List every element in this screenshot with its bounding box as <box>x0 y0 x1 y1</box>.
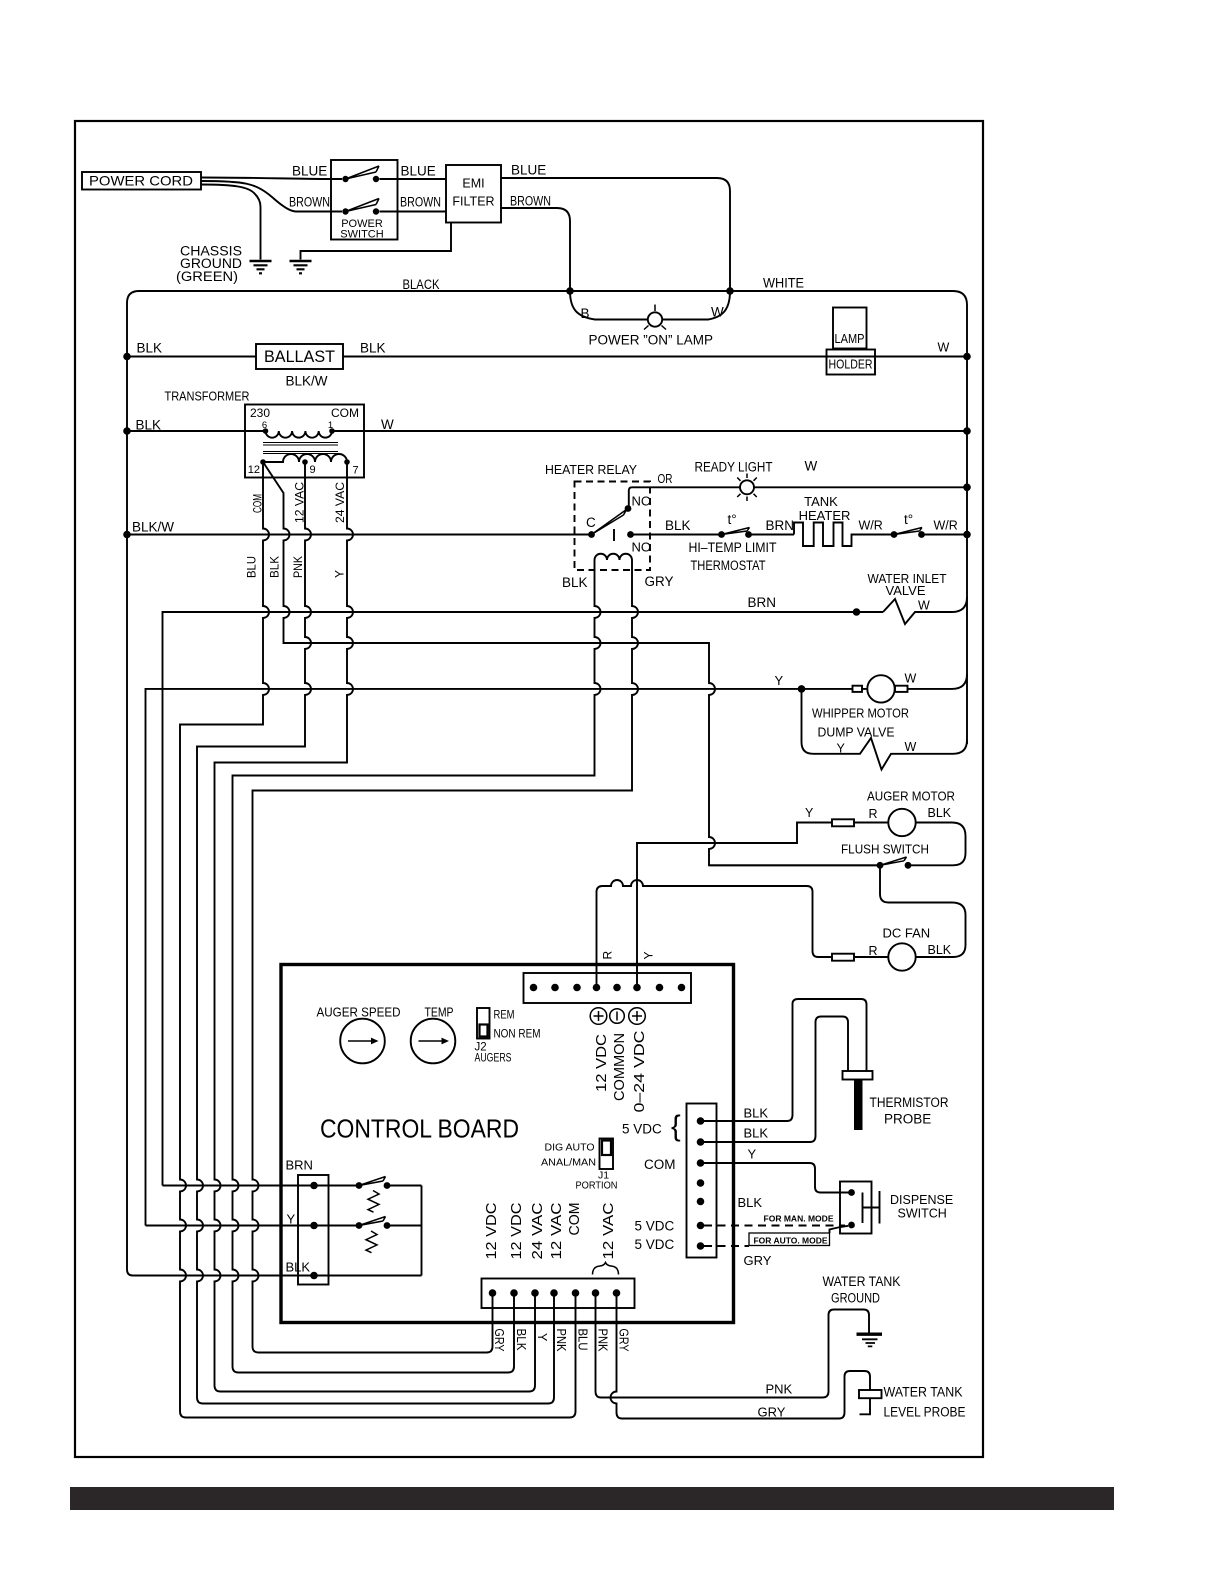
svg-text:FILTER: FILTER <box>452 195 494 209</box>
svg-text:WHITE: WHITE <box>763 276 804 291</box>
svg-text:BLU: BLU <box>576 1329 590 1351</box>
svg-text:CONTROL BOARD: CONTROL BOARD <box>320 1114 519 1144</box>
svg-text:HI–TEMP LIMIT: HI–TEMP LIMIT <box>689 540 777 555</box>
svg-text:BRN: BRN <box>286 1158 313 1173</box>
svg-text:BLUE: BLUE <box>511 163 546 178</box>
svg-text:12 VDC: 12 VDC <box>508 1202 525 1259</box>
svg-text:COM: COM <box>566 1203 583 1236</box>
svg-text:SWITCH: SWITCH <box>340 229 383 241</box>
svg-text:W/R: W/R <box>934 519 958 533</box>
svg-text:DISPENSE: DISPENSE <box>890 1193 953 1207</box>
svg-text:LEVEL PROBE: LEVEL PROBE <box>884 1405 966 1420</box>
svg-text:PNK: PNK <box>291 556 305 578</box>
svg-text:B: B <box>581 306 590 321</box>
svg-text:WHIPPER MOTOR: WHIPPER MOTOR <box>812 706 909 721</box>
svg-text:t°: t° <box>728 512 737 527</box>
svg-text:BLACK: BLACK <box>403 277 440 292</box>
svg-text:PNK: PNK <box>766 1382 793 1397</box>
svg-text:W: W <box>938 341 950 355</box>
svg-text:24 VAC: 24 VAC <box>333 482 347 523</box>
svg-text:BRN: BRN <box>766 518 795 533</box>
svg-text:REM: REM <box>494 1010 515 1022</box>
svg-text:AUGERS: AUGERS <box>475 1053 512 1065</box>
svg-text:(GREEN): (GREEN) <box>176 269 238 284</box>
svg-text:BROWN: BROWN <box>510 194 551 209</box>
svg-text:BLK: BLK <box>136 418 162 433</box>
svg-text:R: R <box>869 944 878 958</box>
svg-text:BLUE: BLUE <box>401 164 436 179</box>
svg-text:WATER TANK: WATER TANK <box>884 1385 963 1400</box>
svg-text:Y: Y <box>837 742 846 756</box>
svg-text:GRY: GRY <box>758 1405 786 1420</box>
svg-text:BLK/W: BLK/W <box>286 374 328 389</box>
svg-text:BLK: BLK <box>744 1106 769 1121</box>
svg-text:12 VAC: 12 VAC <box>293 482 307 523</box>
svg-text:BLUE: BLUE <box>292 164 327 179</box>
svg-text:OR: OR <box>658 471 673 486</box>
svg-text:DIG AUTO: DIG AUTO <box>545 1142 595 1154</box>
svg-text:12 VAC: 12 VAC <box>600 1202 617 1259</box>
svg-text:READY LIGHT: READY LIGHT <box>695 460 773 475</box>
svg-text:BLK: BLK <box>286 1260 311 1275</box>
svg-text:BROWN: BROWN <box>400 195 441 210</box>
svg-text:W/R: W/R <box>859 519 883 533</box>
svg-text:t°: t° <box>904 512 913 527</box>
svg-text:ANAL/MAN: ANAL/MAN <box>541 1157 596 1169</box>
svg-text:W: W <box>381 417 394 432</box>
svg-text:TEMP: TEMP <box>425 1005 454 1020</box>
svg-text:BLK: BLK <box>738 1195 763 1210</box>
svg-text:AUGER MOTOR: AUGER MOTOR <box>867 789 955 804</box>
svg-text:NC: NC <box>632 494 651 509</box>
svg-text:EMI: EMI <box>462 177 484 191</box>
svg-text:PNK: PNK <box>596 1329 610 1353</box>
svg-text:W: W <box>805 459 818 474</box>
svg-text:VALVE: VALVE <box>886 583 926 598</box>
svg-text:NO: NO <box>632 540 652 555</box>
svg-text:5 VDC: 5 VDC <box>635 1237 675 1252</box>
svg-text:Y: Y <box>642 951 656 959</box>
svg-text:COM: COM <box>251 494 265 513</box>
svg-text:HOLDER: HOLDER <box>829 358 873 372</box>
svg-text:PORTION: PORTION <box>576 1180 618 1192</box>
svg-text:Y: Y <box>287 1212 296 1227</box>
svg-text:Y: Y <box>775 673 784 688</box>
svg-text:GROUND: GROUND <box>831 1291 880 1306</box>
svg-text:PNK: PNK <box>554 1329 568 1353</box>
svg-text:{: { <box>671 1111 681 1143</box>
svg-text:BALLAST: BALLAST <box>264 347 335 366</box>
svg-text:12 VDC: 12 VDC <box>483 1202 500 1259</box>
svg-text:GRY: GRY <box>492 1329 506 1353</box>
svg-text:0–24 VDC: 0–24 VDC <box>631 1030 648 1112</box>
svg-text:C: C <box>586 515 596 530</box>
svg-text:R: R <box>601 951 615 960</box>
svg-text:BROWN: BROWN <box>289 195 330 210</box>
svg-text:WATER TANK: WATER TANK <box>823 1274 901 1289</box>
svg-text:NON REM: NON REM <box>494 1029 541 1041</box>
svg-text:BRN: BRN <box>748 595 777 610</box>
svg-text:COM: COM <box>644 1157 676 1172</box>
svg-text:TANK: TANK <box>804 494 838 509</box>
svg-text:THERMOSTAT: THERMOSTAT <box>691 558 766 573</box>
svg-text:BLK: BLK <box>928 943 952 957</box>
svg-text:BLK: BLK <box>928 806 952 820</box>
svg-text:COM: COM <box>331 406 359 420</box>
svg-text:BLK: BLK <box>137 341 163 356</box>
svg-text:LAMP: LAMP <box>835 332 865 346</box>
svg-text:BLK: BLK <box>562 575 588 590</box>
svg-text:DUMP VALVE: DUMP VALVE <box>818 725 895 740</box>
svg-text:12: 12 <box>248 464 260 476</box>
svg-text:W: W <box>711 305 724 320</box>
svg-text:GRY: GRY <box>744 1253 772 1268</box>
svg-text:BLK: BLK <box>665 518 691 533</box>
svg-text:6: 6 <box>262 420 267 431</box>
svg-text:FOR MAN. MODE: FOR MAN. MODE <box>764 1214 834 1224</box>
svg-text:R: R <box>869 807 878 821</box>
svg-text:W: W <box>918 599 930 613</box>
svg-text:TRANSFORMER: TRANSFORMER <box>165 389 250 404</box>
svg-text:BLU: BLU <box>245 556 259 578</box>
svg-text:BLK/W: BLK/W <box>132 520 174 535</box>
svg-text:24 VAC: 24 VAC <box>529 1202 546 1259</box>
svg-text:PROBE: PROBE <box>884 1112 931 1127</box>
svg-text:POWER CORD: POWER CORD <box>89 173 193 189</box>
svg-text:GRY: GRY <box>617 1329 631 1353</box>
svg-text:BLK: BLK <box>514 1329 528 1352</box>
svg-text:FOR AUTO. MODE: FOR AUTO. MODE <box>754 1236 828 1246</box>
svg-text:12 VDC: 12 VDC <box>593 1034 610 1092</box>
svg-text:5 VDC: 5 VDC <box>622 1122 662 1137</box>
svg-text:BLK: BLK <box>744 1126 769 1141</box>
svg-text:BLK: BLK <box>360 341 386 356</box>
svg-text:5 VDC: 5 VDC <box>635 1219 675 1234</box>
svg-text:THERMISTOR: THERMISTOR <box>870 1095 949 1110</box>
svg-text:GRY: GRY <box>645 574 674 589</box>
svg-text:Y: Y <box>748 1147 757 1162</box>
svg-text:FLUSH SWITCH: FLUSH SWITCH <box>841 842 929 857</box>
svg-text:DC FAN: DC FAN <box>883 926 931 941</box>
svg-text:W: W <box>905 740 917 754</box>
svg-text:SWITCH: SWITCH <box>898 1207 947 1221</box>
svg-text:COMMON: COMMON <box>611 1033 628 1101</box>
svg-text:BLK: BLK <box>268 556 282 578</box>
svg-text:HEATER: HEATER <box>799 508 851 523</box>
svg-text:9: 9 <box>310 464 316 476</box>
svg-text:POWER ”ON” LAMP: POWER ”ON” LAMP <box>589 333 714 348</box>
svg-text:12 VAC: 12 VAC <box>548 1202 565 1259</box>
svg-text:Y: Y <box>805 806 814 820</box>
svg-text:230: 230 <box>250 406 270 420</box>
svg-text:HEATER RELAY: HEATER RELAY <box>545 462 637 477</box>
svg-text:W: W <box>905 672 917 686</box>
svg-text:Y: Y <box>333 570 347 578</box>
svg-text:1: 1 <box>328 420 333 431</box>
svg-text:Y: Y <box>535 1333 549 1342</box>
svg-text:AUGER SPEED: AUGER SPEED <box>317 1005 401 1020</box>
svg-text:7: 7 <box>353 465 359 477</box>
